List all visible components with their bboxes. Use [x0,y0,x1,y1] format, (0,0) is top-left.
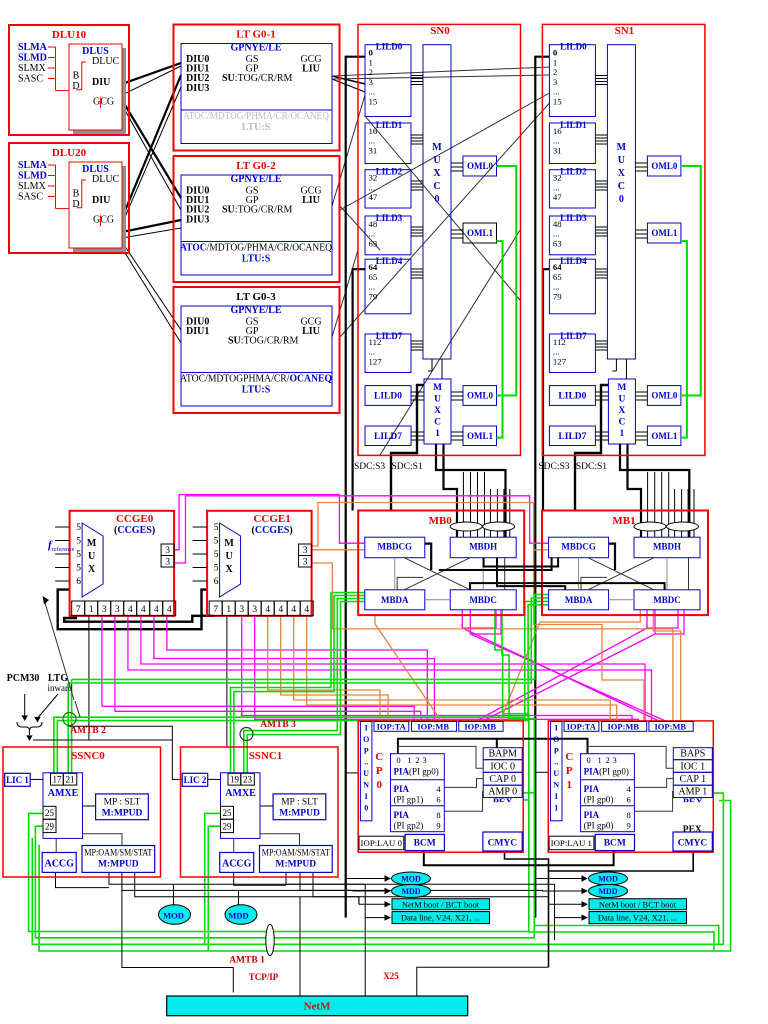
MB0 thin Z wire [397,577,423,589]
svg-text:IOP:MB: IOP:MB [607,721,639,731]
svg-text:GCG: GCG [93,97,114,108]
svg-text:0: 0 [586,755,590,765]
svg-text:LTU:S: LTU:S [242,122,271,133]
AMTB 1 ring ellipse [266,924,274,955]
wire SN0 MUXC1 drop a [436,444,506,537]
svg-text:X: X [618,406,625,416]
CP0 AMP 0 box [483,785,522,797]
MB1 X cross wires [588,558,654,590]
SSNC1 LIC 2 box [182,773,208,786]
svg-text:3: 3 [422,755,426,765]
wire orange CCGE1 4cells to CP1 [294,616,611,722]
MB0 MBDC [450,590,516,610]
svg-text:MBDC: MBDC [469,595,497,605]
SSNC1 port cells top [228,773,241,785]
svg-text:0: 0 [396,755,400,765]
SN0 LILD1 [365,123,411,164]
SN0 MUXC0 [423,45,451,359]
svg-text:112: 112 [369,337,382,347]
block LT G0-2 outer [174,156,340,282]
svg-text:M: M [617,383,626,393]
CP1 AMP 1 box [673,785,712,797]
wire DLU10.DIU to LTG0-1 [122,63,181,84]
svg-text:LILD2: LILD2 [560,167,587,177]
wire SN1 MUXC1 drop b [628,444,642,537]
svg-text:D: D [72,199,79,210]
svg-text:112: 112 [553,337,566,347]
svg-text:64: 64 [369,262,378,272]
svg-text:0: 0 [364,803,368,812]
CP0 BAPM box [483,748,522,760]
svg-text:23: 23 [243,775,253,785]
wire BAPM drop [496,739,498,748]
svg-text:C: C [434,418,441,428]
svg-text:LTU:S: LTU:S [242,254,271,265]
CCGE0 MUX trapezoid [82,523,103,597]
svg-text:(PI gp2): (PI gp2) [394,821,424,831]
svg-text:16: 16 [553,126,562,136]
MB1 cable ellipse 2 [667,522,699,531]
svg-text:ATOC/MDTOGPHMA/CR/OCANEQ: ATOC/MDTOGPHMA/CR/OCANEQ [180,374,332,385]
MB1 MBDC [634,590,700,610]
wire CP1 rail down [554,918,556,940]
MB1 gray verticals [578,558,580,590]
wire orange MBDC1 to CP1 [653,610,680,722]
SN1 green OML1 loop [681,241,687,438]
svg-text:5: 5 [214,564,219,574]
wire CCGE1 cell1 drop [226,616,228,747]
svg-text:M:MPUD: M:MPUD [279,809,320,819]
svg-text:AMP 1: AMP 1 [678,787,707,798]
svg-text:...: ... [553,136,560,146]
svg-text:15: 15 [553,97,562,107]
svg-text:SDC:S1: SDC:S1 [576,462,607,472]
CP1 IOP:MB header 2 [649,722,693,732]
SN0 LILD4 [365,259,411,314]
svg-text:P: P [554,746,559,755]
svg-text:LILD0: LILD0 [558,392,586,402]
svg-text:MDD: MDD [598,887,617,896]
svg-text:DIU3: DIU3 [186,83,209,94]
wire SN1 MUXC1 drop a [620,444,689,537]
svg-text:79: 79 [369,291,378,301]
svg-text:4: 4 [626,784,631,794]
svg-text:TCP/IP: TCP/IP [249,972,279,982]
svg-text:B: B [73,71,80,82]
svg-text:15: 15 [369,97,378,107]
svg-text:...: ... [553,229,560,239]
wire TCP/IP to NetM [122,890,233,992]
svg-text:IOP:TA: IOP:TA [567,721,597,731]
SSNC1 ACCG box [220,853,254,873]
block LT G0-1 inner blue box [181,44,332,144]
svg-text:I: I [555,792,558,801]
svg-text:...: ... [553,87,560,97]
SN1 LILD7 [549,334,595,373]
svg-text:...: ... [553,182,560,192]
svg-text:3: 3 [252,605,257,615]
svg-text:OML1: OML1 [467,228,493,238]
svg-text:63: 63 [369,238,378,248]
svg-text:MBDA: MBDA [381,595,409,605]
SN0 LILD7 small [365,426,411,446]
SN1 OML1 lower [647,426,681,446]
svg-text:25: 25 [45,808,55,818]
SN1 LILD4 [549,259,595,314]
CP1 CMYC box [673,832,712,851]
wire BAPM link CP0-CP1 [398,739,588,754]
wire SN0 rail A [346,57,365,918]
svg-text:U: U [433,155,440,166]
svg-text:5: 5 [76,550,81,560]
svg-text:DIU1: DIU1 [186,326,209,337]
svg-text:LILD7: LILD7 [374,432,402,442]
SN1 MUXC1-OML stubs [635,391,647,393]
pointer line inward to green [75,701,80,717]
wire DLU10 to LTG0-2 b [122,105,181,210]
svg-text:AMTB 3: AMTB 3 [260,720,296,730]
brace [17,722,42,731]
svg-text:NetM boot / BCT boot: NetM boot / BCT boot [599,900,677,910]
svg-text:DLU10: DLU10 [52,29,87,41]
LT G0-2 divider [181,241,332,243]
SN1 green OML0 loop [681,166,701,396]
svg-text:ACCG: ACCG [44,859,74,870]
svg-text:SU:TOG/CR/RM: SU:TOG/CR/RM [222,73,293,84]
svg-text:6: 6 [214,577,219,587]
svg-text:GCG: GCG [93,215,114,226]
svg-text:3: 3 [239,605,244,615]
svg-text:SLMX: SLMX [18,63,47,74]
svg-text:LILD0: LILD0 [374,392,402,402]
svg-text:U: U [363,769,369,778]
svg-text:MOD: MOD [598,875,618,884]
wire orange CCGE1 3box-top to MBDCG0 [312,549,365,551]
svg-text:1: 1 [553,57,557,67]
CP0 BCM box [405,834,444,850]
svg-text:LILD0: LILD0 [376,42,403,52]
svg-text:...: ... [369,182,376,192]
SN1 MUXC0 bottom stubs [615,359,617,371]
wire DLU10 to LTG0-2 a [122,100,181,198]
svg-text:LIU: LIU [302,63,320,74]
svg-text:M: M [224,538,234,549]
CP0 IOP:MB header 2 [459,722,503,732]
SN1 MUXC0 [607,45,635,359]
CP1 IOP:LAU box [549,836,594,850]
CP1 internal wires to right column [588,746,673,768]
CP1 BCM box [595,834,634,850]
svg-text:1: 1 [226,605,231,615]
wire SN1 MUXC1 left elbow [575,385,609,511]
svg-text:X: X [88,564,96,575]
svg-text:4: 4 [141,605,146,615]
SN0 OML1 upper [463,223,497,243]
SSNC0 ACCG box [42,853,76,873]
wire DLU20 to LTG0-2 b [122,228,181,238]
svg-text:127: 127 [369,356,383,366]
svg-text:BCM: BCM [414,839,436,849]
svg-text:O: O [363,735,369,744]
LT G0-3 divider [181,372,332,374]
wire green MBDC0 pair down [495,610,529,800]
svg-text:DIU3: DIU3 [186,215,209,226]
CP1 BAPS box [673,748,712,760]
wire MPOAM0 drops to bus [109,872,365,996]
wire green ring right-side horizontals [534,926,718,945]
wire green ring extra left verticals [32,838,204,944]
svg-text:(PI gp1): (PI gp1) [394,795,424,805]
SN0 OML1 lower [463,426,497,446]
svg-text:IOP:MB: IOP:MB [417,721,449,731]
svg-text:29: 29 [45,822,55,832]
svg-text:3: 3 [165,546,170,556]
wire SN0 rail B [353,269,365,510]
wire ACCG0 drop [56,872,110,887]
svg-text:MP : SLT: MP : SLT [104,798,141,808]
svg-text:SSNC0: SSNC0 [71,750,105,762]
CP1 IOP:TA header [564,722,599,732]
block CP0 outer [358,721,523,852]
MOD ellipse [392,872,431,885]
wire magenta MBDC1 diag to CP0 [647,610,678,628]
svg-text:D: D [72,81,79,92]
svg-text:AMXE: AMXE [225,788,256,799]
svg-text:AMP 0: AMP 0 [488,787,517,798]
block DLU20 DLUS shadow [73,166,126,252]
svg-text:M:MPUD: M:MPUD [102,809,143,819]
svg-text:OML0: OML0 [467,391,493,401]
SSNC0 internal wires [30,778,43,780]
DLU10 inner bracket [77,62,87,90]
svg-text:...: ... [369,229,376,239]
wire DLU20 to LTG0-2 a [122,220,181,232]
block LT G0-3 inner blue box [181,306,332,406]
LTG inward diagonal arrow [39,694,59,717]
wire SSNC1 to NetM [299,897,301,996]
svg-text:31: 31 [553,145,562,155]
MB0 MBDH-MBDC vertical [504,558,506,590]
CP1 hidden PEX text [683,798,704,809]
wire magenta CCGE0 riser to MBDCG0 [174,495,365,550]
SSNC0 MP:SLT box [96,794,149,820]
svg-text:I: I [365,792,368,801]
wire green pair SSNC1 cell23 AMTB3 to MB0 [244,599,365,774]
svg-text:SSNC1: SSNC1 [249,750,283,762]
svg-text:M: M [432,142,442,153]
svg-text:SU:TOG/CR/RM: SU:TOG/CR/RM [228,336,299,347]
svg-text:8: 8 [626,810,630,820]
svg-text:8: 8 [436,810,440,820]
svg-text:2: 2 [415,755,419,765]
svg-text:0: 0 [435,194,440,205]
MB1 MBDA [549,590,609,610]
svg-text:OML0: OML0 [467,161,493,171]
svg-text:AMTB 2: AMTB 2 [70,726,106,736]
wire SN1 thin quad 1 [647,472,649,537]
block MB1 outer [542,511,708,616]
svg-text:LIC 1: LIC 1 [6,775,29,785]
svg-text:MB1: MB1 [612,515,635,527]
SN0 LILD7 [365,334,411,373]
wire green SSNC1 cell29 loop [208,801,730,952]
block SN0 outer [358,24,521,455]
svg-text:SASC: SASC [18,74,43,85]
svg-text:0: 0 [369,48,374,58]
svg-text:...: ... [369,87,376,97]
CCGE0 input ticks [55,526,70,528]
svg-text:63: 63 [553,238,562,248]
SSNC0 AMXE box [43,773,83,839]
svg-text:SLMD: SLMD [18,53,47,64]
svg-text:LILD0: LILD0 [560,42,587,52]
svg-text:5: 5 [76,523,81,533]
svg-text:PIA(PI gp0): PIA(PI gp0) [584,767,629,777]
svg-text:LILD1: LILD1 [376,120,403,130]
wire LTG0-1 to SN1.LILD0 long [332,67,550,76]
svg-text:MP : SLT: MP : SLT [281,798,318,808]
svg-text:LILD3: LILD3 [376,213,403,223]
arrows into MOD group [346,878,385,880]
SN0 LILD-MUXC0 stubs [411,75,423,77]
svg-text:GPNYE/LE: GPNYE/LE [230,174,281,185]
DLU20 GCG red tick [100,216,102,227]
wire MBDH0 to MBDA1 thick [497,558,565,590]
SN1 MUXC0-OML stubs [635,162,647,164]
wire magenta CCGE1-3cells to CP1 [242,616,632,722]
svg-text:...: ... [369,282,376,292]
svg-text:LILD2: LILD2 [376,167,403,177]
svg-text:4: 4 [128,605,133,615]
wire orange MBDC1 to CP0 diag [540,610,640,622]
svg-text:BAPM: BAPM [489,749,517,760]
svg-text:1: 1 [369,57,373,67]
svg-text:SDC:S1: SDC:S1 [392,462,423,472]
SN1 small LILD-MUXC1 stubs [595,391,608,393]
CCGE0 bottom cell row [72,601,85,616]
svg-text:B: B [73,189,80,200]
svg-text:LILD7: LILD7 [558,432,586,442]
svg-text:MBDH: MBDH [469,542,497,552]
svg-text:PCM30: PCM30 [7,673,40,684]
SN0 green OML0 loop [497,166,517,396]
DLU10 red bracket wires [48,46,56,48]
svg-text:4: 4 [167,605,172,615]
block DLU10 outer [9,25,129,135]
MB0 MBDH [450,537,516,558]
wire AMTB2 to LIC2 [69,726,183,779]
SN1 LILD3 [549,216,595,255]
svg-text:M: M [433,383,442,393]
svg-text:LT G0-2: LT G0-2 [236,160,276,172]
svg-text:U: U [434,395,441,405]
wire ACCG1 drop [234,872,286,885]
CP0 IOC 0 box [483,760,522,773]
SN0 OML0 upper [463,156,497,176]
SSNC0 port cells top [51,773,64,785]
CP0 IOP:MB header 1 [412,722,457,732]
svg-text:3: 3 [553,77,558,87]
svg-text:IOP:LAU 0: IOP:LAU 0 [361,838,403,848]
svg-text:5: 5 [214,550,219,560]
wire SN0 thin quad 1 [462,472,464,537]
NetM boot box [589,899,687,910]
CCGE1 output 3 boxes [299,544,312,556]
svg-text:P: P [376,765,383,777]
wire CCGE inner wrap [64,616,213,622]
wire DLU20 to LTG0-1 b [122,87,181,224]
svg-text:48: 48 [369,219,378,229]
LT G0-1 divider [181,109,332,111]
svg-text:32: 32 [369,173,378,183]
block CP1 outer [548,721,713,852]
svg-text:6: 6 [626,795,630,805]
svg-text:X25: X25 [383,971,399,981]
MB1 MBDH-MBDC vertical [688,558,690,590]
svg-text:4: 4 [265,605,270,615]
svg-text:PIA(PI gp0): PIA(PI gp0) [394,767,439,777]
svg-text:25: 25 [223,808,233,818]
MDD ellipse [392,885,431,898]
SN1 LILD0 small [549,386,595,406]
SN1 OML0 upper [647,156,681,176]
svg-text:LT G0-3: LT G0-3 [236,291,276,303]
svg-text:...: ... [369,136,376,146]
svg-text:127: 127 [553,356,567,366]
svg-text:LILD1: LILD1 [560,120,587,130]
SN1 LILD0 [549,45,595,117]
svg-text:PIA: PIA [584,810,600,820]
CP0 hidden PEX text [493,798,514,809]
wire LTG0-2.LIU to SN0 up [332,95,365,206]
svg-text:O: O [553,735,559,744]
svg-text:Data line, V24, X21, ...: Data line, V24, X21, ... [598,913,677,923]
wire magenta CCGE0 4cells fan [167,616,427,722]
svg-text:0: 0 [376,779,382,791]
svg-text:31: 31 [369,145,378,155]
block SSNC0 outer [3,747,161,877]
svg-text:29: 29 [223,822,233,832]
svg-text:MB0: MB0 [429,515,453,527]
SN1 LILD2 [549,170,595,208]
svg-text:(CCGES): (CCGES) [114,525,155,536]
wire MBDC0 to MBDC1 thick [470,583,665,590]
MB0 MBDCG [365,537,425,558]
wire X25 to NetM [417,967,549,996]
svg-text:SLMX: SLMX [18,181,47,192]
svg-text:DLU20: DLU20 [52,147,87,159]
svg-text:21: 21 [66,775,75,785]
svg-text:MDD: MDD [228,911,248,921]
MB1 thin Z wire [581,577,607,589]
CCGE1 MUX trapezoid [220,523,241,597]
svg-text:MDD: MDD [401,887,420,896]
SN0 MUXC0 bottom stubs [431,359,433,371]
wire green SSNC0 cell25 loop [29,800,529,932]
svg-text:C: C [433,181,440,192]
wire LTG0-3.LIU diagonals [332,250,358,337]
wire rails into UNI boxes [346,772,359,774]
CP1 CAP 1 box [673,772,712,785]
svg-text:LILD3: LILD3 [560,213,587,223]
wire BCM0-BCM1 link [424,851,614,866]
wire SN0 thin quad 2 [489,489,491,537]
svg-text:OML0: OML0 [651,391,677,401]
svg-text:P: P [566,765,573,777]
wire magenta MBDC0 diag to CP1 [462,610,496,628]
wire diag across SN0 interior [365,116,520,300]
svg-text:...: ... [553,347,560,357]
